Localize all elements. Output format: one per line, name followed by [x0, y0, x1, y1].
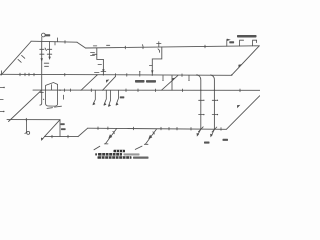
hook riser 1 top right	[240, 40, 244, 46]
caption note row 1	[98, 153, 122, 156]
arrowhead drop x95	[93, 102, 96, 105]
wire: left riser diagonal D6	[9, 90, 42, 121]
fixture drop below H8 with trap circle	[25, 120, 27, 134]
flow arrow on B2	[106, 80, 109, 83]
tick at left end of H3	[0, 71, 2, 75]
ticks on H3 left	[19, 73, 21, 76]
ticks on H7	[51, 135, 53, 138]
caption note row 1 numeral	[95, 153, 97, 155]
wire: main middle pipe H3	[0, 74, 232, 75]
caption title row	[114, 150, 126, 153]
fixture drop from H5 at x110.6	[109, 90, 111, 106]
caption tick slash left	[94, 146, 100, 150]
wire: branch diagonal B1	[81, 75, 97, 90]
vent circle	[42, 33, 46, 37]
label right of pennant flag	[229, 41, 234, 43]
flow arrow on V1	[41, 58, 43, 61]
dot above H3 riser tick x140	[139, 71, 140, 72]
flow arrow on D3	[237, 105, 240, 108]
wire: step riser R2 from H2 down to H3	[152, 47, 162, 75]
wire: right riser diagonal D2	[232, 46, 259, 75]
wire: vertical edge of inlet triangle	[59, 120, 61, 137]
arrowhead drop x118.4	[116, 102, 119, 105]
tick above H1 at x57.5	[57, 38, 59, 42]
label near Va bottom	[204, 142, 210, 144]
valve tick pair on left riser group y49.3	[40, 48, 44, 50]
small stub below H1 at x55	[54, 42, 56, 45]
wire: top pipe H1	[31, 41, 77, 42]
fixture drop from H5 at x106.3	[104, 90, 106, 105]
wire: riser Va elbow and vertical	[197, 75, 201, 129]
arrowhead at bottom of drop x49.6	[48, 57, 50, 60]
end stub right of meter	[63, 95, 65, 99]
ticks on H2	[124, 46, 126, 49]
valve dash with dot on Va y100.3	[199, 99, 203, 101]
left edge stub y99.5	[0, 99, 3, 101]
faucet glyph 2 below H6	[146, 129, 157, 144]
dot right of V1	[43, 99, 44, 100]
wire: riser Vb elbow and vertical	[211, 75, 215, 129]
wire: second floor pipe H5	[33, 89, 260, 91]
arrowhead drop x106	[104, 102, 107, 105]
wire: top long pipe H2	[86, 46, 260, 48]
fixture drop from H5 at x118.4	[116, 90, 118, 104]
stub below H3 at x189	[188, 76, 190, 80]
inner mark in water meter	[51, 85, 53, 90]
left edge stub y87.5	[0, 87, 4, 89]
fixture drop from H5 at x95.3	[93, 90, 95, 104]
junction dot B1 top	[96, 74, 97, 75]
wire: riser vertical Ve	[171, 76, 173, 90]
dashes above H3 near x94-106	[95, 71, 100, 73]
down-left spout from Vb bottom	[211, 129, 214, 136]
valve tick pair on left riser group y54.2	[40, 53, 44, 55]
dash near R1 lower vertical	[98, 64, 102, 66]
caption note row 2	[98, 156, 132, 159]
down-left spout from Va bottom	[198, 129, 201, 135]
wire: riser diagonal D0 from main pipe left end up to top pipe	[1, 42, 31, 76]
junction dot D2 bend	[231, 74, 232, 75]
tick across V1 below H5	[40, 92, 43, 94]
break slash on Vb bottom	[212, 127, 217, 132]
tick marks above H2 near riser R1	[93, 45, 97, 47]
dash pair below water meter	[47, 107, 53, 110]
junction dot R1 bottom	[103, 74, 104, 75]
valve symbol above R2 top	[157, 43, 161, 45]
label near drop x118	[120, 96, 125, 98]
wire: step diagonal D4	[78, 128, 88, 136]
junction dot R2 bottom	[152, 74, 153, 75]
wire: jog diagonal D1	[77, 42, 86, 48]
caption tick slash right	[135, 146, 142, 149]
wire: hypotenuse of inlet triangle	[45, 120, 61, 137]
valve dash on R1 left side	[93, 53, 97, 55]
flow arrow on R1 vertical	[102, 69, 104, 72]
wire: bottom left pipe H7	[45, 136, 79, 138]
break slash on Va bottom	[198, 127, 203, 132]
pennant flag riser on H2 at x226.8	[226, 40, 228, 47]
arrowhead drop x110.6	[108, 104, 111, 107]
wire: ground floor left pipe H8	[7, 119, 60, 121]
label top right	[237, 35, 257, 38]
junction dot Va x H5	[200, 90, 201, 91]
dot on H5 right of meter	[59, 90, 60, 91]
wire: bottom long pipe H6	[88, 128, 227, 129]
ticks on H3 middle	[115, 74, 117, 77]
tick on H1 at x65	[64, 41, 66, 44]
valve riser with vent circle above H1	[41, 37, 43, 42]
wire: branch diagonal B3	[162, 76, 178, 91]
ticks on H6	[97, 127, 99, 130]
label near Vb bottom	[223, 139, 229, 141]
water meter balloon on H5	[46, 83, 58, 107]
flow arrow on D2	[238, 64, 241, 67]
valve ticks across D0	[18, 59, 21, 62]
character gaps in caption bars	[101, 150, 130, 159]
ticks on H5	[64, 89, 66, 92]
junction dot Va top	[196, 74, 197, 75]
tick dashes right below H2 at x92	[91, 52, 95, 54]
fixture drop from H1 at x49.6	[49, 42, 51, 59]
valve dash with dot on Vb y100.3	[212, 99, 216, 101]
valve dash on R2 left side	[149, 65, 152, 67]
left edge stub y111.5	[0, 111, 3, 113]
wire: branch diagonal B2	[103, 76, 116, 90]
squiggle below H2 at R2	[158, 49, 160, 53]
pennant flag tip	[227, 39, 231, 41]
extra valve dashes below left cluster	[44, 62, 49, 64]
stub below H3 at x163	[162, 76, 164, 80]
valve dash with dot on Vb y114.6	[212, 114, 216, 116]
flow arrow on B3	[172, 78, 175, 81]
faucet glyph 1 below H6	[106, 129, 117, 144]
label right of triangle vertical	[61, 123, 65, 125]
wire: left riser V1 down to floor drain	[40, 42, 42, 106]
tick on H8	[25, 118, 27, 121]
label text above vent circle	[45, 34, 51, 36]
hook riser 2 top right	[253, 40, 257, 46]
pipe label above H5	[135, 80, 145, 83]
flow arrow on R2 vertical	[151, 70, 153, 73]
wire: lower right diagonal D3	[227, 96, 260, 130]
dot above H2 at x142.5	[142, 44, 143, 45]
valve dash with dot on Va y114.6	[199, 114, 203, 116]
junction dot Vb x H5	[214, 90, 215, 91]
arrow at H7 left end	[42, 137, 45, 140]
wire: step riser R1 from H2 down to H3	[97, 48, 104, 75]
